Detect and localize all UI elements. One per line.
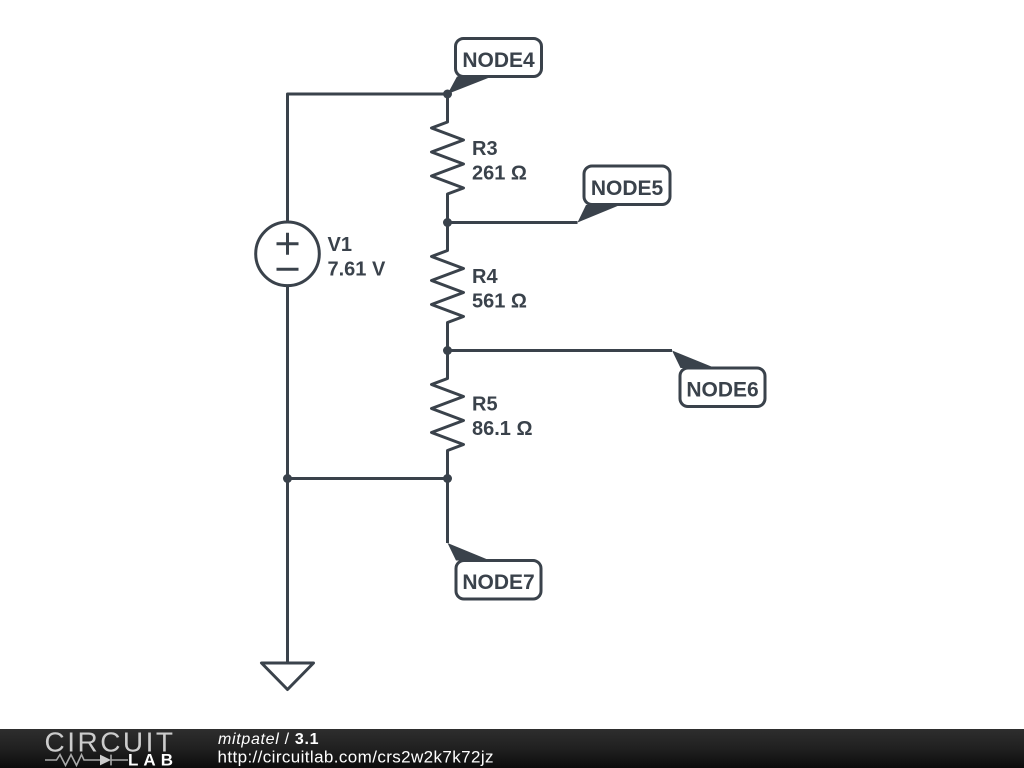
wire bottom rail — [288, 477, 448, 480]
label R4 value — [472, 266, 527, 313]
resistor R5 — [432, 351, 464, 479]
svg-text:R4: R4 — [472, 266, 498, 288]
junction node E (bottom rail / ground tee) — [283, 474, 292, 483]
svg-text:LAB: LAB — [128, 751, 173, 768]
node NODE4 flag — [448, 39, 542, 95]
svg-text:NODE5: NODE5 — [591, 177, 664, 200]
wire top horizontal from source to R3 top — [288, 94, 448, 222]
svg-text:NODE7: NODE7 — [462, 571, 534, 594]
svg-text:R3: R3 — [472, 138, 498, 160]
CircuitLab logo: resistor-diode glyph — [45, 755, 128, 766]
svg-text:V1: V1 — [328, 234, 352, 256]
wire from junction to NODE6 — [448, 349, 673, 352]
label R3 value — [472, 138, 527, 185]
svg-text:7.61 V: 7.61 V — [328, 259, 386, 281]
wire from junction to NODE5 — [448, 221, 578, 224]
svg-text:NODE4: NODE4 — [462, 49, 535, 72]
junction node B (R3/R4 tap) — [443, 218, 452, 227]
resistor R4 — [432, 223, 464, 351]
svg-text:261 Ω: 261 Ω — [472, 163, 527, 185]
ground — [262, 663, 314, 690]
svg-text:NODE6: NODE6 — [686, 379, 758, 402]
wire stub down to NODE7 — [446, 479, 449, 544]
junction node C (R4/R5 tap) — [443, 346, 452, 355]
footer bar — [0, 729, 1024, 768]
svg-text:561 Ω: 561 Ω — [472, 291, 527, 313]
svg-text:http://circuitlab.com/crs2w2k7: http://circuitlab.com/crs2w2k7k72jz — [218, 748, 494, 767]
svg-text:86.1 Ω: 86.1 Ω — [472, 418, 533, 440]
wire ground lead — [286, 479, 289, 664]
svg-text:R5: R5 — [472, 394, 498, 416]
junction node D (bottom of R5) — [443, 474, 452, 483]
junction node A (NODE4 anchor dot) — [443, 90, 452, 99]
resistor R3 — [432, 94, 464, 223]
svg-text:mitpatel / 3.1: mitpatel / 3.1 — [218, 731, 319, 748]
node NODE7 flag — [448, 543, 542, 599]
voltage source V1 — [256, 222, 320, 286]
node NODE6 flag — [672, 351, 765, 407]
node NODE5 flag — [578, 166, 671, 223]
label R5 value — [472, 394, 533, 441]
label V1 value — [328, 234, 386, 281]
wire left vertical lower (source bottom lead to bottom rail) — [286, 286, 289, 479]
